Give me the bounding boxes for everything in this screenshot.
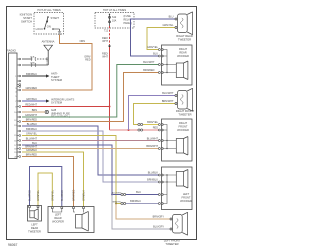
svg-text:17: 17 bbox=[14, 145, 16, 147]
svg-text:BLU/BLK: BLU/BLK bbox=[148, 172, 159, 175]
svg-text:WOOFER: WOOFER bbox=[52, 219, 64, 223]
svg-text:7: 7 bbox=[15, 101, 16, 103]
svg-text:13: 13 bbox=[14, 125, 16, 127]
svg-text:20: 20 bbox=[14, 157, 16, 159]
svg-text:GRN/YEL: GRN/YEL bbox=[163, 24, 175, 27]
svg-text:BLU/BLK: BLU/BLK bbox=[27, 123, 38, 126]
svg-text:1: 1 bbox=[15, 76, 16, 78]
svg-text:BLU: BLU bbox=[136, 191, 141, 194]
svg-text:BRN/GRY: BRN/GRY bbox=[153, 215, 165, 218]
svg-text:GRN/YEL: GRN/YEL bbox=[26, 132, 38, 135]
svg-text:LEFT FRONT: LEFT FRONT bbox=[164, 238, 181, 242]
svg-text:10: 10 bbox=[14, 112, 16, 114]
svg-text:WHT: WHT bbox=[102, 40, 108, 43]
svg-text:REAR: REAR bbox=[31, 226, 38, 230]
svg-text:HOT AT ALL TIMES: HOT AT ALL TIMES bbox=[103, 8, 126, 12]
svg-text:WHT: WHT bbox=[102, 56, 108, 59]
svg-text:FRONT: FRONT bbox=[182, 195, 191, 199]
svg-text:BRN/WHT: BRN/WHT bbox=[146, 145, 158, 148]
svg-text:GRN/YEL: GRN/YEL bbox=[37, 189, 40, 201]
svg-text:RED/WHT: RED/WHT bbox=[25, 103, 37, 106]
svg-text:BRN/WHT: BRN/WHT bbox=[162, 100, 174, 103]
svg-text:RED: RED bbox=[153, 126, 158, 129]
svg-text:TWEETER: TWEETER bbox=[178, 113, 191, 117]
svg-text:GRN/YEL: GRN/YEL bbox=[112, 201, 122, 203]
svg-text:SYSTEM: SYSTEM bbox=[51, 78, 63, 82]
svg-text:BLU/WHT: BLU/WHT bbox=[143, 61, 155, 64]
svg-text:BRN/RED: BRN/RED bbox=[143, 69, 154, 72]
svg-text:REAR: REAR bbox=[54, 216, 61, 220]
svg-text:16: 16 bbox=[14, 141, 16, 143]
svg-text:START: START bbox=[51, 16, 60, 20]
svg-text:18: 18 bbox=[14, 149, 16, 151]
svg-text:SWITCH: SWITCH bbox=[21, 20, 32, 24]
svg-text:LEFT: LEFT bbox=[55, 213, 62, 217]
svg-text:GRY/BLU: GRY/BLU bbox=[26, 98, 37, 101]
svg-text:GRN/BLK: GRN/BLK bbox=[83, 190, 86, 201]
svg-text:TWEETER: TWEETER bbox=[178, 38, 191, 42]
svg-text:4: 4 bbox=[15, 92, 16, 94]
svg-text:BRN/BLU: BRN/BLU bbox=[130, 200, 141, 203]
svg-text:REAR: REAR bbox=[179, 50, 186, 54]
svg-text:BLU/GRY: BLU/GRY bbox=[112, 192, 122, 194]
svg-text:RADIO: RADIO bbox=[7, 49, 17, 53]
svg-text:BLU/RED: BLU/RED bbox=[61, 190, 64, 201]
svg-text:HOT AT ALL TIMES: HOT AT ALL TIMES bbox=[37, 8, 60, 12]
svg-text:RIGHT REAR: RIGHT REAR bbox=[176, 34, 193, 38]
svg-text:ON: ON bbox=[47, 25, 51, 29]
svg-text:WOOFER: WOOFER bbox=[177, 128, 189, 132]
svg-text:GRN/YEL: GRN/YEL bbox=[51, 189, 54, 201]
svg-text:ORN: ORN bbox=[79, 40, 85, 43]
svg-text:BRN/BLU: BRN/BLU bbox=[147, 179, 158, 182]
svg-text:LEFT: LEFT bbox=[183, 192, 190, 196]
svg-text:RIGHT: RIGHT bbox=[179, 121, 187, 125]
svg-text:BLU/WHT: BLU/WHT bbox=[162, 92, 174, 95]
svg-text:GRN/RED: GRN/RED bbox=[25, 87, 37, 90]
svg-text:FRONT: FRONT bbox=[179, 124, 188, 128]
svg-text:5: 5 bbox=[15, 96, 16, 98]
svg-text:VCA: VCA bbox=[30, 56, 35, 59]
svg-text:GRN/YEL: GRN/YEL bbox=[147, 46, 159, 49]
svg-text:GRN/WHT: GRN/WHT bbox=[25, 114, 37, 117]
svg-text:RED: RED bbox=[85, 59, 90, 62]
svg-text:RIGHT: RIGHT bbox=[179, 47, 187, 51]
svg-text:BLU/WHT: BLU/WHT bbox=[26, 137, 38, 140]
svg-text:BRN/BLU: BRN/BLU bbox=[26, 73, 37, 76]
svg-text:BLU: BLU bbox=[169, 15, 174, 18]
svg-text:BRN/BLU: BRN/BLU bbox=[26, 128, 37, 131]
svg-text:LEFT: LEFT bbox=[31, 223, 38, 227]
svg-text:15: 15 bbox=[14, 135, 16, 137]
svg-text:8: 8 bbox=[15, 107, 16, 109]
svg-text:WOOFER: WOOFER bbox=[180, 199, 192, 203]
svg-text:10A: 10A bbox=[112, 20, 117, 23]
svg-text:BRN/YEL: BRN/YEL bbox=[147, 121, 158, 124]
svg-text:RIGHT FRONT: RIGHT FRONT bbox=[176, 109, 195, 113]
svg-text:BRN/RED: BRN/RED bbox=[26, 153, 37, 156]
svg-text:BRN/RED: BRN/RED bbox=[73, 190, 76, 201]
svg-text:TWEETER: TWEETER bbox=[165, 242, 178, 246]
svg-text:BLU/RED: BLU/RED bbox=[29, 190, 32, 201]
svg-text:BLU: BLU bbox=[153, 52, 158, 55]
svg-text:BLU/GRY: BLU/GRY bbox=[153, 225, 164, 228]
svg-text:VGA: VGA bbox=[30, 62, 35, 65]
svg-text:96067: 96067 bbox=[8, 243, 18, 247]
svg-text:LOCK: LOCK bbox=[36, 27, 44, 31]
svg-text:SYSTEM: SYSTEM bbox=[51, 101, 63, 105]
svg-text:BLU/WHT: BLU/WHT bbox=[147, 137, 159, 140]
svg-text:GRN/BLK: GRN/BLK bbox=[26, 149, 37, 152]
svg-text:19: 19 bbox=[14, 152, 16, 154]
svg-text:WOOFER: WOOFER bbox=[177, 54, 189, 58]
svg-text:12: 12 bbox=[14, 120, 16, 122]
svg-text:BRN: BRN bbox=[32, 109, 37, 112]
svg-text:3: 3 bbox=[15, 88, 16, 90]
svg-text:BRN/RED: BRN/RED bbox=[26, 118, 37, 121]
svg-text:TWEETER: TWEETER bbox=[28, 229, 41, 233]
svg-text:ANTENNA: ANTENNA bbox=[42, 40, 55, 44]
svg-text:BLU: BLU bbox=[32, 142, 37, 145]
